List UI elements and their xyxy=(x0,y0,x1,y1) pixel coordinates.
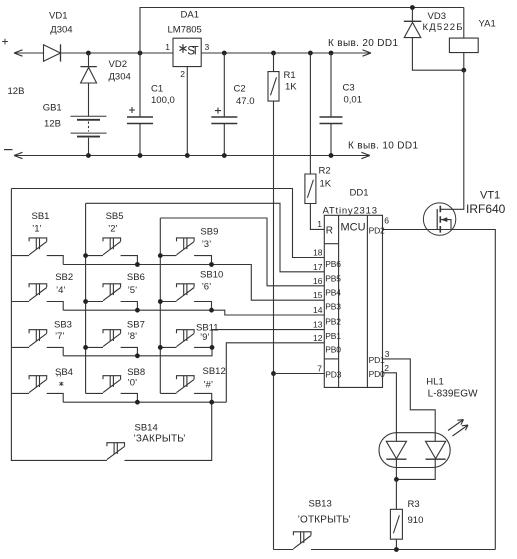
svg-text:3: 3 xyxy=(385,349,390,359)
svg-text:’2’: ’2’ xyxy=(108,224,118,235)
svg-text:C1: C1 xyxy=(151,84,163,95)
svg-text:DA1: DA1 xyxy=(181,10,199,21)
junction R3 ground xyxy=(394,547,399,552)
wire row 4 contact stub col2 xyxy=(86,392,103,394)
svg-text:PB5: PB5 xyxy=(325,273,341,283)
junction row2 SB6 xyxy=(135,308,140,313)
svg-text:IRF640: IRF640 xyxy=(466,202,506,216)
junction C3 ground xyxy=(329,153,334,158)
svg-text:PB3: PB3 xyxy=(325,302,341,312)
wire row 2 to MCU pin 14 xyxy=(63,310,324,315)
svg-text:SB2: SB2 xyxy=(55,272,73,283)
svg-text:PB4: PB4 xyxy=(325,287,341,297)
wire row 3 SB col2 right lead step xyxy=(121,347,138,355)
wire R1 bottom long vertical to SB13 xyxy=(273,101,275,549)
transistor VT1 IRF640 xyxy=(423,203,455,235)
junction row3 tap xyxy=(210,345,215,350)
svg-text:’ЗАКРЫТЬ’: ’ЗАКРЫТЬ’ xyxy=(134,434,186,445)
junction row1 SB9 xyxy=(209,262,214,267)
svg-text:КД522Б: КД522Б xyxy=(423,22,463,33)
pushbutton SB8 '0' xyxy=(103,376,121,393)
svg-text:’5’: ’5’ xyxy=(128,285,138,296)
IC DD1 ATtiny2313 outline xyxy=(324,215,382,387)
junction VD3 top rail xyxy=(410,5,415,10)
svg-text:L-839EGW: L-839EGW xyxy=(428,389,479,400)
svg-text:100,0: 100,0 xyxy=(151,95,175,106)
wire row 1 to MCU pin 15 xyxy=(63,265,324,301)
svg-text:R1: R1 xyxy=(284,70,296,81)
diode VD2 xyxy=(81,66,97,68)
svg-text:’#’: ’#’ xyxy=(204,380,214,391)
junction R1 xyxy=(271,51,276,56)
svg-text:’7’: ’7’ xyxy=(55,331,65,342)
wire row 1 SB col1 right lead step xyxy=(47,256,64,265)
svg-text:C3: C3 xyxy=(343,82,355,93)
capacitor C1 xyxy=(139,53,141,156)
junction col2 row1 xyxy=(83,253,88,258)
wire row 4 lower xyxy=(63,401,226,403)
svg-text:PB2: PB2 xyxy=(325,317,341,327)
svg-text:YA1: YA1 xyxy=(479,18,496,29)
capacitor C2 xyxy=(223,53,225,156)
svg-text:PD3: PD3 xyxy=(325,370,341,380)
junction row2 SB10 xyxy=(209,308,214,313)
svg-text:+: + xyxy=(2,35,9,49)
wire row2 SB10 right lead step xyxy=(194,302,211,311)
svg-text:SB12: SB12 xyxy=(203,366,226,377)
svg-text:PD0: PD0 xyxy=(369,369,385,379)
svg-text:12В: 12В xyxy=(44,119,61,130)
wire row 2 SB col2 right lead step xyxy=(121,302,138,311)
svg-text:’ОТКРЫТЬ’: ’ОТКРЫТЬ’ xyxy=(298,515,351,526)
pushbutton SB6 '5' xyxy=(103,284,121,301)
wire row 3 lower xyxy=(63,347,212,355)
svg-text:14: 14 xyxy=(313,305,323,315)
svg-text:18: 18 xyxy=(313,248,323,258)
svg-text:’6’: ’6’ xyxy=(202,281,212,292)
wire row 2 contact stub col2 xyxy=(86,301,103,303)
svg-text:1K: 1K xyxy=(320,179,332,190)
pushbutton SB13 'ОТКРЫТЬ' xyxy=(274,549,294,551)
svg-text:VD3: VD3 xyxy=(428,11,446,22)
wire DA1 pin2 to ground rail xyxy=(186,67,188,156)
wire R2 to MCU pin 1 xyxy=(310,204,324,230)
wire MCU pin3 to HL1 right anode xyxy=(383,359,436,433)
wire row 3 contact stub col3 xyxy=(160,346,176,348)
pushbutton SB3 '7' xyxy=(29,330,47,347)
svg-text:12: 12 xyxy=(313,333,323,343)
electromagnet YA1 xyxy=(449,38,478,53)
svg-text:GB1: GB1 xyxy=(43,103,62,114)
svg-text:7: 7 xyxy=(317,364,322,374)
junction HL1 cathode xyxy=(394,477,399,482)
LED HL1 L-839EGW xyxy=(379,433,450,468)
node - input terminal xyxy=(4,149,13,151)
diode VD1 xyxy=(44,45,61,61)
pushbutton SB9 '3' xyxy=(177,238,195,255)
diode VD3 xyxy=(404,20,422,22)
svg-text:LM7805: LM7805 xyxy=(168,25,202,36)
wire row 4 contact line col1 xyxy=(11,392,29,394)
regulator DA1 LM7805 xyxy=(173,38,201,66)
svg-text:17: 17 xyxy=(313,262,323,272)
wire row 4 to MCU pin 12 xyxy=(226,343,324,402)
svg-text:SB6: SB6 xyxy=(127,272,145,283)
capacitor C3 xyxy=(330,53,332,156)
svg-text:2: 2 xyxy=(384,363,389,373)
svg-text:’1’: ’1’ xyxy=(32,224,42,235)
pushbutton SB14 'ЗАКРЫТЬ' xyxy=(107,443,125,460)
svg-text:SB3: SB3 xyxy=(54,320,72,331)
wire column-3 bus xyxy=(159,218,161,393)
svg-text:ATtiny2313: ATtiny2313 xyxy=(323,206,378,217)
wire left column bus to SB14 xyxy=(11,189,107,461)
svg-text:VD1: VD1 xyxy=(49,11,67,22)
wire row 1 contact stub col2 xyxy=(86,255,103,257)
battery GB1 xyxy=(71,115,107,117)
wire SB14 riser xyxy=(125,402,212,460)
junction row4 SB14 xyxy=(209,400,214,405)
svg-text:6: 6 xyxy=(384,216,389,226)
svg-text:SB7: SB7 xyxy=(127,320,145,331)
junction VD2 tap xyxy=(86,51,91,56)
light emission arrows HL1 xyxy=(448,420,464,431)
svg-text:SB5: SB5 xyxy=(106,211,124,222)
svg-text:SB8: SB8 xyxy=(127,367,145,378)
junction DA1 pin2 ground xyxy=(185,153,190,158)
svg-text:3: 3 xyxy=(205,42,210,52)
resistor R3 910 xyxy=(395,479,397,509)
pushbutton SB2 '4' xyxy=(29,284,47,301)
junction row1 SB5 xyxy=(135,262,140,267)
resistor R2 1K xyxy=(309,53,311,174)
svg-text:1K: 1K xyxy=(285,82,297,93)
wire HL1 internal leads xyxy=(396,433,435,468)
svg-text:SB14: SB14 xyxy=(135,423,158,434)
junction C2 ground xyxy=(222,153,227,158)
svg-text:SB13: SB13 xyxy=(309,499,332,510)
junction col2 row2 xyxy=(83,299,88,304)
svg-text:47.0: 47.0 xyxy=(236,96,255,107)
wire MCU pin6 / gate / source to right edge down xyxy=(383,230,496,550)
junction row3 SB7 xyxy=(135,353,140,358)
svg-text:К выв. 10 DD1: К выв. 10 DD1 xyxy=(348,141,418,152)
svg-text:ST: ST xyxy=(187,45,199,57)
wire PB5 line from column-2 bus xyxy=(86,203,325,271)
wire row 3 contact stub col2 xyxy=(86,346,103,348)
svg-text:12В: 12В xyxy=(8,86,25,97)
svg-text:SB1: SB1 xyxy=(32,211,50,222)
svg-text:15: 15 xyxy=(313,290,323,300)
resistor R1 1K xyxy=(273,53,275,72)
wire PB4 line from column-3 bus xyxy=(160,218,324,286)
junction C1 ground xyxy=(138,153,143,158)
wire row 3 to MCU pin 13 xyxy=(212,330,324,348)
wire row3 SB11 right lead xyxy=(194,346,212,348)
wire row 2 contact line col1 xyxy=(11,301,29,303)
svg-text:SB9: SB9 xyxy=(200,226,218,237)
svg-text:PB0: PB0 xyxy=(325,344,341,354)
junction col3 row1 xyxy=(158,253,163,258)
svg-text:Д304: Д304 xyxy=(50,25,72,36)
svg-text:C2: C2 xyxy=(234,84,246,95)
wire +12V input with arrow xyxy=(14,52,44,54)
pushbutton SB7 '8' xyxy=(103,330,121,347)
junction row4 SB8 xyxy=(135,400,140,405)
wire MCU pin7 to R1 line xyxy=(274,373,325,375)
wire row1 SB9 right lead step xyxy=(194,256,211,265)
svg-text:13: 13 xyxy=(313,320,323,330)
wire row 2 contact stub col3 xyxy=(160,301,176,303)
svg-text:0,01: 0,01 xyxy=(344,95,363,106)
junction C2 xyxy=(222,51,227,56)
wire row4 SB12 right lead step xyxy=(194,393,212,402)
junction col3 row3 xyxy=(158,345,163,350)
svg-text:PB6: PB6 xyxy=(325,259,341,269)
wire PB6 line from left bus xyxy=(11,189,324,258)
wire column-2 bus xyxy=(85,203,87,393)
wire HL1 cathodes join xyxy=(396,468,435,480)
junction YA1/VD3 xyxy=(461,68,466,73)
wire +12V top rail xyxy=(140,8,464,54)
svg-text:PD2: PD2 xyxy=(369,226,385,236)
svg-text:’3’: ’3’ xyxy=(202,239,212,250)
pushbutton SB5 '2' xyxy=(103,238,121,255)
junction col2 row3 xyxy=(83,345,88,350)
svg-text:SB10: SB10 xyxy=(200,270,223,281)
svg-text:R2: R2 xyxy=(319,166,331,177)
pushbutton SB1 '1' xyxy=(29,238,47,255)
wire row 3 contact line col1 xyxy=(11,346,29,348)
wire ground rail with arrows xyxy=(14,155,331,157)
wire row 1 contact stub col3 xyxy=(160,255,176,257)
junction R2 xyxy=(308,51,313,56)
wire row 4 SB col2 right lead step xyxy=(121,393,138,402)
junction R1/PD3 xyxy=(271,371,276,376)
wire row 4 contact stub col3 xyxy=(160,392,176,394)
wire VD1 cathode to DA1 input xyxy=(61,52,174,54)
junction C3 xyxy=(329,51,334,56)
svg-text:PD1: PD1 xyxy=(369,355,385,365)
pushbutton SB10 '6' xyxy=(177,284,195,301)
svg-text:VD2: VD2 xyxy=(109,59,127,70)
svg-text:R3: R3 xyxy=(408,499,420,510)
wire row 1 SB col2 right lead step xyxy=(121,256,138,265)
svg-text:16: 16 xyxy=(313,276,323,286)
svg-text:’4’: ’4’ xyxy=(56,285,66,296)
svg-text:Д304: Д304 xyxy=(109,72,131,83)
pushbutton SB12 '#' xyxy=(177,376,195,393)
wire row 4 SB col1 right lead step xyxy=(47,393,64,402)
svg-text:’0’: ’0’ xyxy=(128,378,138,389)
pushbutton SB11 '9' xyxy=(177,330,195,347)
junction +12V rail tap xyxy=(138,51,143,56)
wire +5V rail with arrow to pin 20 xyxy=(201,52,371,54)
svg-text:PB1: PB1 xyxy=(325,331,341,341)
svg-text:HL1: HL1 xyxy=(426,377,443,388)
svg-text:’8’: ’8’ xyxy=(128,331,138,342)
junction GB1 ground xyxy=(86,153,91,158)
svg-text:2: 2 xyxy=(180,69,185,79)
wire MCU pin2 to HL1 left anode xyxy=(383,373,397,433)
wire row 1 contact line col1 xyxy=(11,255,29,257)
wire row 3 SB col1 right lead step xyxy=(47,347,64,355)
svg-text:’9’: ’9’ xyxy=(200,332,210,343)
svg-text:К выв. 20 DD1: К выв. 20 DD1 xyxy=(328,38,398,49)
junction col3 row2 xyxy=(158,299,163,304)
svg-text:R: R xyxy=(326,226,333,237)
svg-text:910: 910 xyxy=(408,515,424,526)
wire YA1 to VT1 drain xyxy=(440,70,464,209)
wire row 2 SB col1 right lead step xyxy=(47,302,64,311)
svg-text:1: 1 xyxy=(165,42,170,52)
svg-text:1: 1 xyxy=(317,219,322,229)
svg-text:DD1: DD1 xyxy=(350,188,369,199)
svg-text:MCU: MCU xyxy=(340,222,365,234)
pushbutton SB4 '*' xyxy=(29,376,47,393)
wire SB13 to R3 bottom and right edge xyxy=(311,549,495,551)
svg-text:VT1: VT1 xyxy=(480,190,500,202)
